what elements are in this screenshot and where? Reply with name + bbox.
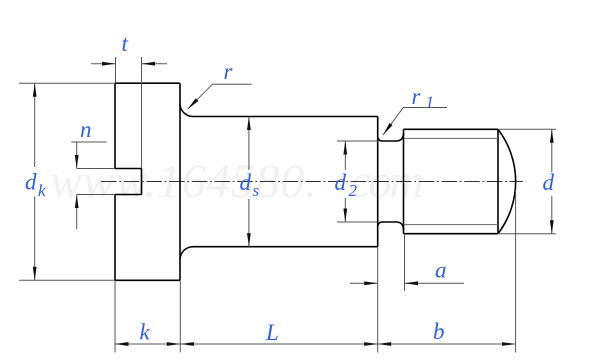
svg-text:d: d bbox=[543, 170, 555, 195]
svg-text:r: r bbox=[224, 59, 234, 84]
threaded portion outline bbox=[404, 129, 499, 233]
dimension d extension lines bbox=[498, 129, 556, 233]
svg-text:n: n bbox=[80, 117, 92, 142]
svg-text:b: b bbox=[433, 319, 445, 344]
head outline bbox=[115, 83, 193, 280]
svg-text:d: d bbox=[335, 170, 347, 195]
neck groove outline bbox=[378, 133, 404, 230]
dimension k dimension line and arrows bbox=[115, 343, 180, 345]
dimension d2 extension lines bbox=[337, 141, 378, 222]
dimension t extension lines bbox=[116, 57, 142, 169]
svg-text:d: d bbox=[25, 170, 37, 195]
dimension dk extension lines bbox=[19, 83, 115, 280]
centerline (screw axis) bbox=[101, 181, 523, 183]
svg-text:k: k bbox=[140, 320, 151, 345]
dimension a extension line bbox=[404, 234, 406, 291]
svg-text:s: s bbox=[253, 181, 260, 200]
svg-text:1: 1 bbox=[426, 93, 435, 112]
dimension d2 dimension line and arrows bbox=[344, 141, 346, 222]
dimension n dimension line and arrows bbox=[71, 142, 106, 229]
svg-text:2: 2 bbox=[349, 181, 358, 200]
shank (shoulder) outline bbox=[193, 117, 378, 247]
dimension dk dimension line and arrows bbox=[34, 83, 36, 280]
leader r bbox=[188, 84, 252, 109]
rounded end dome bbox=[498, 129, 516, 233]
dimension L dimension line and arrows bbox=[180, 343, 377, 345]
thread root lines bbox=[404, 138, 499, 224]
svg-text:d: d bbox=[240, 170, 252, 195]
svg-text:t: t bbox=[122, 31, 129, 56]
svg-text:a: a bbox=[435, 258, 447, 283]
dimension n extension lines (slot edges extended) bbox=[77, 169, 115, 195]
dimension t dimension line and arrows bbox=[91, 63, 167, 65]
bottom extension lines for k L b bbox=[115, 190, 516, 353]
dimension b dimension line and arrows bbox=[378, 343, 516, 345]
svg-text:k: k bbox=[38, 181, 46, 200]
dimension d dimension line and arrows bbox=[551, 129, 553, 233]
slot in head bbox=[115, 169, 142, 195]
dimension ds dimension line and arrows bbox=[248, 117, 250, 247]
svg-text:L: L bbox=[265, 320, 279, 345]
leader r1 bbox=[383, 108, 447, 136]
dimension a dimension line and arrows bbox=[350, 282, 464, 284]
svg-text:r: r bbox=[412, 84, 422, 109]
